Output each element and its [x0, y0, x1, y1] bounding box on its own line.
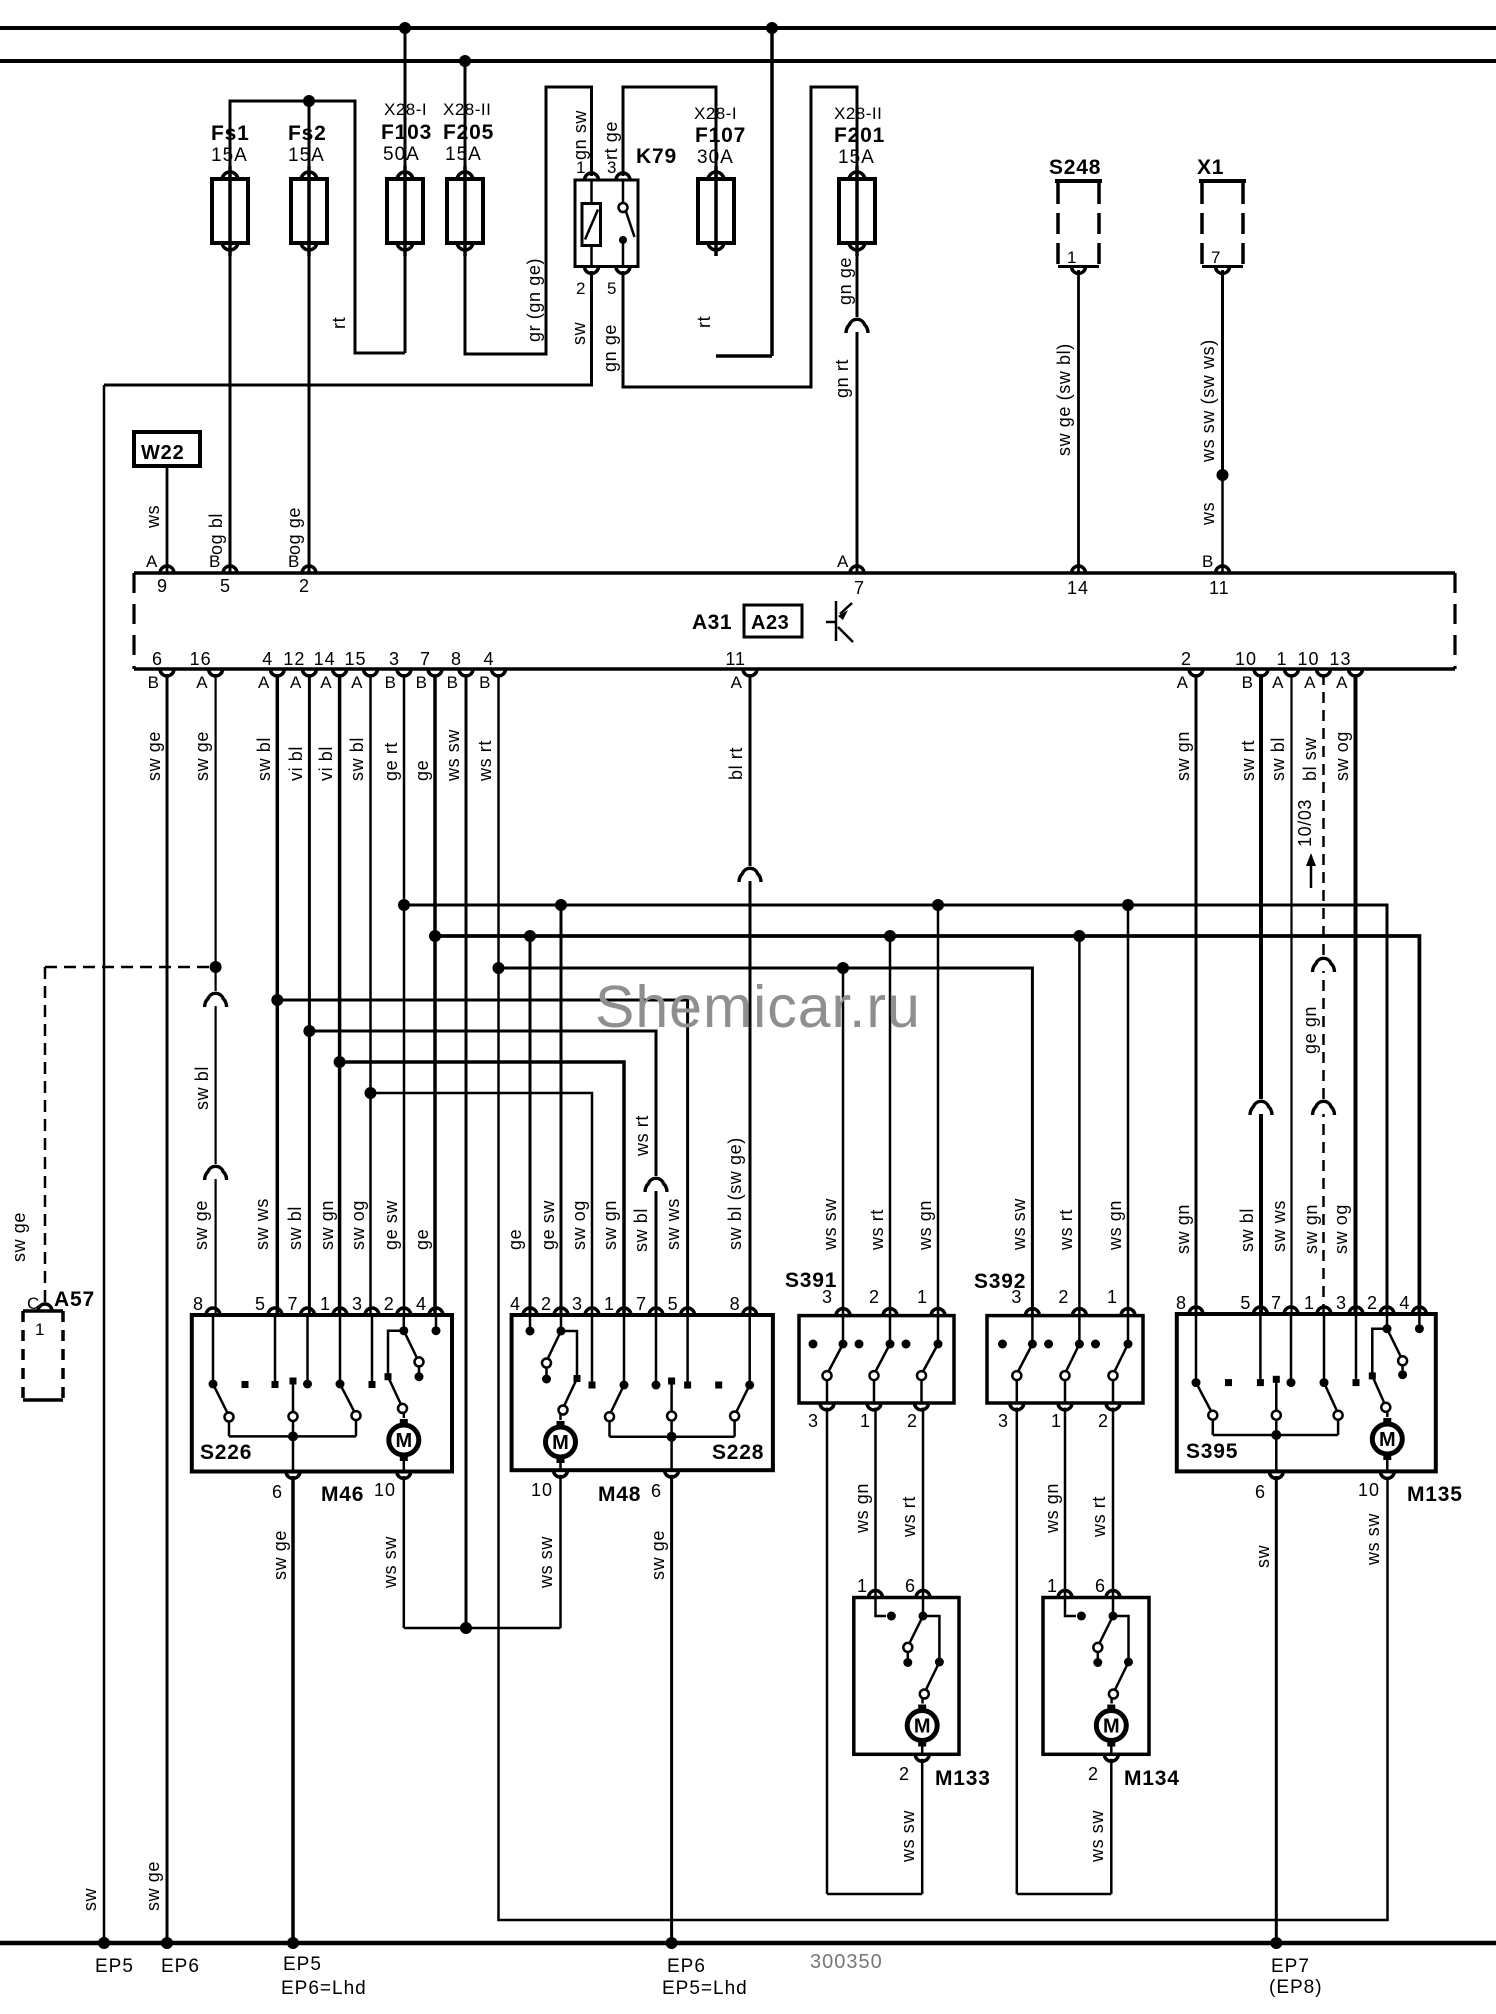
svg-text:A23: A23 — [751, 612, 789, 634]
svg-text:ge rt: ge rt — [381, 742, 401, 781]
pin A31 bottom 15A — [364, 669, 378, 676]
wire X1 to A31 pin11 — [1221, 270, 1224, 475]
wire F201 to A31 pin7 — [856, 245, 859, 573]
wire net y905 — [404, 905, 1387, 1314]
wire S391.2 riser — [889, 936, 892, 1316]
svg-text:1: 1 — [1051, 1411, 1062, 1431]
S391 arms — [829, 1344, 844, 1372]
svg-text:B: B — [288, 552, 300, 571]
svg-text:A: A — [1272, 673, 1284, 692]
svg-text:S392: S392 — [974, 1270, 1026, 1293]
svg-text:4: 4 — [483, 649, 494, 669]
pin M133.6 — [916, 1591, 930, 1598]
svg-text:C: C — [27, 1294, 40, 1313]
svg-text:X28-I: X28-I — [384, 100, 427, 119]
S395 contact row — [1192, 1378, 1201, 1387]
S391 lower stubs — [826, 1380, 829, 1403]
svg-text:F103: F103 — [381, 121, 432, 144]
wire M134 U-link — [1017, 1893, 1112, 1896]
svg-text:M: M — [395, 1430, 412, 1452]
svg-text:sw: sw — [1253, 1544, 1273, 1568]
svg-text:sw bl: sw bl — [631, 1208, 651, 1252]
switch unit S226/M46 box — [192, 1315, 452, 1472]
pin S395.8 — [1189, 1307, 1203, 1314]
svg-text:B: B — [148, 673, 160, 692]
svg-text:EP7: EP7 — [1271, 1956, 1310, 1977]
wire S248 to A31 pin14 — [1077, 270, 1080, 573]
svg-text:sw: sw — [80, 1887, 100, 1911]
svg-text:5: 5 — [220, 576, 231, 596]
ground W22 box — [134, 432, 200, 466]
svg-text:7: 7 — [854, 578, 865, 598]
svg-text:ws: ws — [1198, 502, 1218, 526]
svg-text:1: 1 — [604, 1294, 615, 1314]
S392 contacts — [998, 1340, 1007, 1349]
svg-text:1: 1 — [917, 1287, 928, 1307]
S226 center pole — [292, 1381, 295, 1412]
wire F103 riser — [404, 28, 407, 170]
node rail EP5b — [287, 1937, 299, 1949]
S226 motor arm — [388, 1377, 401, 1405]
svg-text:M: M — [1103, 1716, 1120, 1738]
pin S226.1 — [333, 1308, 347, 1315]
svg-text:14: 14 — [1067, 578, 1089, 598]
svg-text:sw bl: sw bl — [192, 1066, 212, 1110]
motor M134 — [1096, 1711, 1126, 1741]
svg-text:7: 7 — [1211, 248, 1221, 267]
pin A31 bottom 16A — [209, 669, 223, 676]
svg-text:rt: rt — [694, 316, 714, 328]
wire pin13A to S395.3 — [1354, 674, 1358, 1314]
wire S392.2 to M134.6 — [1112, 1408, 1115, 1598]
wire M133.2 down — [921, 1759, 924, 1894]
fuse Fs1 15A — [228, 166, 232, 256]
svg-text:M: M — [552, 1432, 569, 1454]
svg-text:F201: F201 — [834, 124, 885, 147]
pin S226.3 — [365, 1308, 379, 1315]
pin A31 bottom 13A — [1349, 669, 1363, 676]
pin M134.6 — [1106, 1591, 1120, 1598]
wire S391.3 down — [826, 1408, 829, 1895]
hop 10B — [1259, 1099, 1264, 1114]
svg-text:EP5: EP5 — [95, 1956, 134, 1977]
S228 motor arm — [564, 1379, 577, 1407]
svg-text:11: 11 — [1209, 578, 1230, 598]
pin S226.2 — [397, 1308, 411, 1315]
wire pin14A to S226.1 — [338, 674, 342, 1315]
M133 pin6 pivot — [922, 1598, 925, 1617]
svg-text:ws gn: ws gn — [915, 1200, 935, 1251]
svg-text:A: A — [146, 552, 158, 571]
wire pin11A to M48.8 — [749, 674, 752, 1315]
svg-text:S228: S228 — [712, 1441, 764, 1464]
M135 motor to pin10 — [1386, 1460, 1389, 1471]
svg-text:X28-II: X28-II — [443, 100, 491, 119]
pin A31 bottom 10B — [1254, 669, 1268, 676]
svg-text:14: 14 — [314, 649, 336, 669]
pin M48.10 — [554, 1470, 568, 1477]
pin A31 bottom 10A — [1317, 669, 1331, 676]
svg-text:S226: S226 — [200, 1441, 252, 1464]
S226 motor switch — [403, 1315, 406, 1331]
fuse Fs2 15A — [307, 166, 311, 256]
pin A31 bottom 6B — [160, 669, 174, 676]
sensor symbol in A31 — [835, 601, 838, 641]
svg-text:2: 2 — [299, 576, 310, 596]
svg-text:7: 7 — [636, 1294, 647, 1314]
pin M46.10 — [397, 1472, 411, 1479]
wire Fs1 out og bl — [229, 245, 232, 573]
svg-text:gr (gn ge): gr (gn ge) — [524, 258, 544, 342]
svg-text:sw gn: sw gn — [1301, 1204, 1321, 1254]
svg-text:sw og: sw og — [1332, 731, 1352, 781]
svg-text:1: 1 — [35, 1320, 45, 1339]
relay K79 box — [575, 180, 638, 267]
fuse F201 15A — [855, 166, 859, 256]
svg-text:rt: rt — [329, 317, 349, 329]
wire net y1062 — [340, 1062, 624, 1315]
svg-text:4: 4 — [1399, 1293, 1410, 1313]
wire riser to F107 bottom — [770, 28, 774, 356]
svg-text:F205: F205 — [443, 121, 494, 144]
node y968 junctions — [493, 962, 505, 974]
svg-text:ge: ge — [412, 1229, 432, 1250]
svg-text:8: 8 — [730, 1294, 741, 1314]
svg-text:sw gn: sw gn — [317, 1200, 337, 1250]
pin A31 top x=1222.5 — [1216, 566, 1230, 573]
svg-text:1: 1 — [860, 1411, 871, 1431]
S226 pin stubs — [212, 1315, 215, 1384]
wire net y1000 — [277, 1000, 687, 1315]
svg-text:12: 12 — [283, 649, 305, 669]
svg-text:EP6=Lhd: EP6=Lhd — [281, 1978, 367, 1999]
svg-text:gn rt: gn rt — [832, 359, 852, 398]
svg-text:5: 5 — [1240, 1293, 1251, 1313]
svg-text:sw ge: sw ge — [191, 1200, 211, 1250]
svg-text:1: 1 — [857, 1576, 868, 1596]
pin S226.4 — [429, 1308, 443, 1315]
svg-text:7: 7 — [420, 649, 431, 669]
node rail EP6b — [666, 1937, 678, 1949]
pin M133.2 — [915, 1754, 929, 1761]
svg-text:11: 11 — [725, 649, 746, 669]
wire F205 to K79 pin1 — [465, 87, 592, 354]
pin A31 top x=309 — [302, 566, 316, 573]
svg-text:ws sw: ws sw — [1087, 1810, 1107, 1863]
svg-text:sw ge: sw ge — [144, 731, 164, 781]
svg-text:A31: A31 — [692, 611, 732, 634]
pin S228.8 — [743, 1308, 757, 1315]
M134 arm1 — [1099, 1616, 1113, 1644]
wire pin10B to S395.5 — [1259, 674, 1263, 1314]
wire M133 U-link — [827, 1893, 922, 1896]
S392 stubs — [1031, 1316, 1034, 1344]
M134 arm2 — [1115, 1662, 1129, 1690]
hop 10A y1108 — [1321, 1099, 1326, 1114]
svg-text:B: B — [385, 673, 397, 692]
svg-text:sw bl (sw ge): sw bl (sw ge) — [725, 1137, 745, 1250]
svg-text:A: A — [731, 673, 743, 692]
svg-text:6: 6 — [1255, 1482, 1266, 1502]
motor M133 — [907, 1711, 937, 1741]
svg-text:50A: 50A — [383, 144, 420, 165]
svg-text:15A: 15A — [211, 145, 248, 166]
motor unit M134 box — [1043, 1598, 1149, 1755]
switch unit S395/M135 box — [1177, 1314, 1436, 1471]
svg-text:10/03: 10/03 — [1295, 799, 1315, 847]
pin S395.4 — [1412, 1307, 1426, 1314]
svg-text:ws rt: ws rt — [867, 1209, 887, 1251]
svg-text:1: 1 — [1304, 1293, 1315, 1313]
wire S391.3 riser — [842, 968, 845, 1316]
svg-text:6: 6 — [651, 1481, 662, 1501]
node X1 wire splice — [1217, 469, 1229, 481]
wire S392.1 to M134.1 — [1064, 1408, 1067, 1598]
hop 16A y1173 — [213, 1164, 218, 1179]
svg-text:M46: M46 — [321, 1483, 364, 1506]
pin M135.10 — [1380, 1471, 1394, 1478]
svg-text:7: 7 — [1271, 1293, 1282, 1313]
pin A31 bottom 3B — [397, 669, 411, 676]
svg-text:M: M — [1379, 1429, 1396, 1451]
node bus junction riser — [766, 22, 778, 34]
svg-text:rt ge: rt ge — [601, 121, 621, 160]
pin M46.6 — [286, 1472, 300, 1479]
svg-text:ws sw: ws sw — [1363, 1513, 1383, 1566]
relay K79 coil — [590, 180, 593, 204]
node y1093 junction — [365, 1087, 377, 1099]
hop 11A — [748, 866, 753, 881]
svg-text:ws rt: ws rt — [475, 740, 495, 782]
wire M135.6 to EP7 — [1275, 1476, 1278, 1943]
svg-text:ws sw: ws sw — [898, 1810, 918, 1863]
wire M134.2 down — [1110, 1759, 1113, 1894]
pin S226.5 — [268, 1308, 282, 1315]
svg-text:ws sw: ws sw — [443, 729, 463, 782]
svg-text:ge: ge — [412, 760, 432, 781]
motor unit M133 box — [854, 1598, 959, 1755]
wire pin15A to S226.3 — [369, 674, 372, 1315]
svg-text:ws sw: ws sw — [820, 1198, 840, 1251]
svg-text:4: 4 — [262, 649, 273, 669]
pin M134.1 — [1058, 1591, 1072, 1598]
pin S392.3 top — [1025, 1309, 1039, 1316]
node junction Fs2 top — [303, 95, 315, 107]
svg-text:1: 1 — [1107, 1287, 1118, 1307]
S228 pin stubs — [591, 1315, 594, 1385]
pin A31 bottom 14A — [333, 669, 347, 676]
svg-text:2: 2 — [907, 1411, 918, 1431]
M133 arm1 — [909, 1616, 923, 1644]
hop M48.7 — [654, 1176, 659, 1191]
svg-text:2: 2 — [1181, 649, 1192, 669]
svg-text:vi bl: vi bl — [286, 746, 306, 781]
pin A31 bottom 2A — [1189, 669, 1203, 676]
svg-text:ws rt: ws rt — [1056, 1209, 1076, 1251]
svg-text:2: 2 — [384, 1294, 395, 1314]
pin S228.2 — [554, 1308, 568, 1315]
ground rail — [0, 1941, 1496, 1946]
svg-text:6: 6 — [905, 1576, 916, 1596]
node y1000 junction — [271, 994, 283, 1006]
svg-text:A: A — [320, 673, 332, 692]
node dashed junction 16A — [210, 961, 222, 973]
svg-text:S248: S248 — [1049, 156, 1101, 179]
wire K79 pin5 to F201 — [623, 87, 857, 387]
pin S391.1 top — [931, 1309, 945, 1316]
pin A31 top x=1078.5 — [1072, 566, 1086, 573]
wire power bus 2 — [0, 59, 1496, 63]
node rail EP7 — [1270, 1937, 1282, 1949]
switch unit M48/S228 box — [512, 1315, 773, 1470]
connector S248 — [1056, 183, 1060, 265]
svg-text:sw ge: sw ge — [270, 1530, 290, 1580]
svg-text:10: 10 — [1297, 649, 1319, 669]
wire pin7B to S226.4 — [433, 674, 437, 1315]
svg-text:A: A — [1304, 673, 1316, 692]
wire pin6B sw ge to EP6 — [166, 674, 169, 1943]
wire net y968 — [499, 968, 1033, 1316]
wire net y1093 — [371, 1093, 593, 1315]
motor M48 — [546, 1427, 576, 1457]
svg-text:gn ge: gn ge — [835, 257, 855, 305]
svg-text:2: 2 — [1098, 1411, 1109, 1431]
svg-text:3: 3 — [607, 158, 617, 177]
S395 motor arm — [1372, 1376, 1384, 1404]
svg-text:1: 1 — [576, 158, 586, 177]
svg-text:4: 4 — [416, 1294, 427, 1314]
wire pin10A dashed to S395.1 — [1322, 674, 1325, 1314]
wire M48.2 drop — [560, 905, 563, 1315]
pin M134.2 — [1104, 1754, 1118, 1761]
svg-text:gn sw: gn sw — [570, 110, 590, 160]
motor M135 — [1372, 1424, 1402, 1454]
svg-text:sw: sw — [569, 321, 589, 345]
hop 10A y965 — [1321, 956, 1326, 971]
svg-text:2: 2 — [1058, 1287, 1069, 1307]
wire W22 ws — [166, 466, 169, 573]
pin S392.1 top — [1121, 1309, 1135, 1316]
pin S395.7 — [1284, 1307, 1298, 1314]
M134 motor to pin2 — [1110, 1747, 1113, 1755]
svg-text:K79: K79 — [636, 145, 677, 168]
svg-text:ws rt: ws rt — [899, 1496, 919, 1538]
pin M135.6 — [1269, 1471, 1283, 1478]
svg-text:(EP8): (EP8) — [1269, 1977, 1323, 1998]
fuse F103 50A — [403, 166, 407, 256]
svg-text:ge sw: ge sw — [538, 1200, 558, 1250]
switch S391 box — [799, 1316, 954, 1403]
wire net y1031 — [309, 1031, 656, 1315]
M46 motor to pin10 — [403, 1461, 406, 1472]
svg-text:EP6: EP6 — [667, 1956, 706, 1977]
connector A57 — [23, 1309, 63, 1313]
svg-text:M134: M134 — [1124, 1767, 1180, 1790]
svg-text:sw ws: sw ws — [252, 1198, 272, 1250]
svg-text:15A: 15A — [445, 144, 482, 165]
svg-text:gn ge: gn ge — [600, 324, 620, 372]
svg-text:W22: W22 — [141, 442, 185, 464]
pin M48.6 — [665, 1470, 679, 1477]
pin A31 bottom 7B — [428, 669, 442, 676]
svg-text:M: M — [914, 1716, 931, 1738]
svg-text:3: 3 — [572, 1294, 583, 1314]
pin M133.1 — [869, 1591, 883, 1598]
wire pin8B ws sw — [465, 674, 468, 1628]
pin S395.2 — [1380, 1307, 1394, 1314]
svg-text:EP5=Lhd: EP5=Lhd — [662, 1978, 748, 1999]
svg-text:15: 15 — [344, 649, 366, 669]
S228 center pole — [670, 1381, 673, 1412]
M134 pin1 path — [1065, 1598, 1076, 1617]
S226 output bus — [228, 1421, 231, 1436]
wire Fs1-Fs2 top bracket — [230, 101, 405, 353]
wire Fs2 drop — [308, 101, 311, 179]
node pin10 bus junction — [460, 1622, 472, 1634]
wire K79 pin2 sw — [104, 271, 592, 385]
arrow 10/03 — [1310, 862, 1313, 888]
svg-text:B: B — [479, 673, 491, 692]
pin S226.7 — [301, 1308, 315, 1315]
svg-text:10: 10 — [1235, 649, 1257, 669]
fuse F107 30A — [714, 166, 718, 256]
node y1031 junction — [303, 1025, 315, 1037]
svg-text:B: B — [1202, 552, 1214, 571]
svg-text:5: 5 — [607, 279, 617, 298]
svg-text:sw og: sw og — [569, 1200, 589, 1250]
wire K79 pin3 to F107 — [623, 87, 716, 176]
svg-text:B: B — [447, 673, 459, 692]
svg-text:Fs2: Fs2 — [288, 122, 327, 145]
relay K79 pin bumps — [585, 173, 599, 180]
svg-text:3: 3 — [389, 649, 400, 669]
node bus junction F205 — [459, 55, 471, 67]
wire F103 bottom — [404, 245, 407, 353]
svg-text:B: B — [209, 552, 221, 571]
pin S391.2 top — [883, 1309, 897, 1316]
svg-text:A: A — [258, 673, 270, 692]
S392 lower stubs — [1016, 1380, 1019, 1403]
pin S228.3 — [585, 1308, 599, 1315]
M133 arm2 — [926, 1662, 940, 1690]
motor M46 — [389, 1425, 419, 1455]
switch S392 box — [987, 1316, 1143, 1403]
svg-text:ws sw: ws sw — [1009, 1198, 1029, 1251]
pin S228.7 — [649, 1308, 663, 1315]
svg-text:vi bl: vi bl — [316, 746, 336, 781]
pin A31 top x=167 — [160, 566, 174, 573]
M133 motor to pin2 — [921, 1747, 924, 1755]
svg-text:Shemicar.ru: Shemicar.ru — [595, 974, 921, 1040]
svg-text:16: 16 — [190, 649, 212, 669]
svg-text:A: A — [1177, 673, 1189, 692]
svg-text:sw rt: sw rt — [1238, 740, 1258, 781]
svg-text:og bl: og bl — [206, 513, 226, 555]
svg-text:A: A — [196, 673, 208, 692]
svg-text:sw gn: sw gn — [1173, 731, 1193, 781]
svg-text:og ge: og ge — [284, 507, 304, 555]
svg-text:sw ge: sw ge — [143, 1861, 163, 1911]
svg-text:S395: S395 — [1186, 1440, 1238, 1463]
svg-text:sw bl: sw bl — [1268, 737, 1288, 781]
svg-text:300350: 300350 — [810, 1951, 883, 1973]
svg-text:X1: X1 — [1197, 156, 1224, 179]
svg-text:EP5: EP5 — [283, 1954, 322, 1975]
M133 pin1 path — [876, 1598, 887, 1617]
svg-text:13: 13 — [1329, 649, 1351, 669]
svg-text:sw ge: sw ge — [192, 731, 212, 781]
svg-text:A: A — [837, 552, 849, 571]
